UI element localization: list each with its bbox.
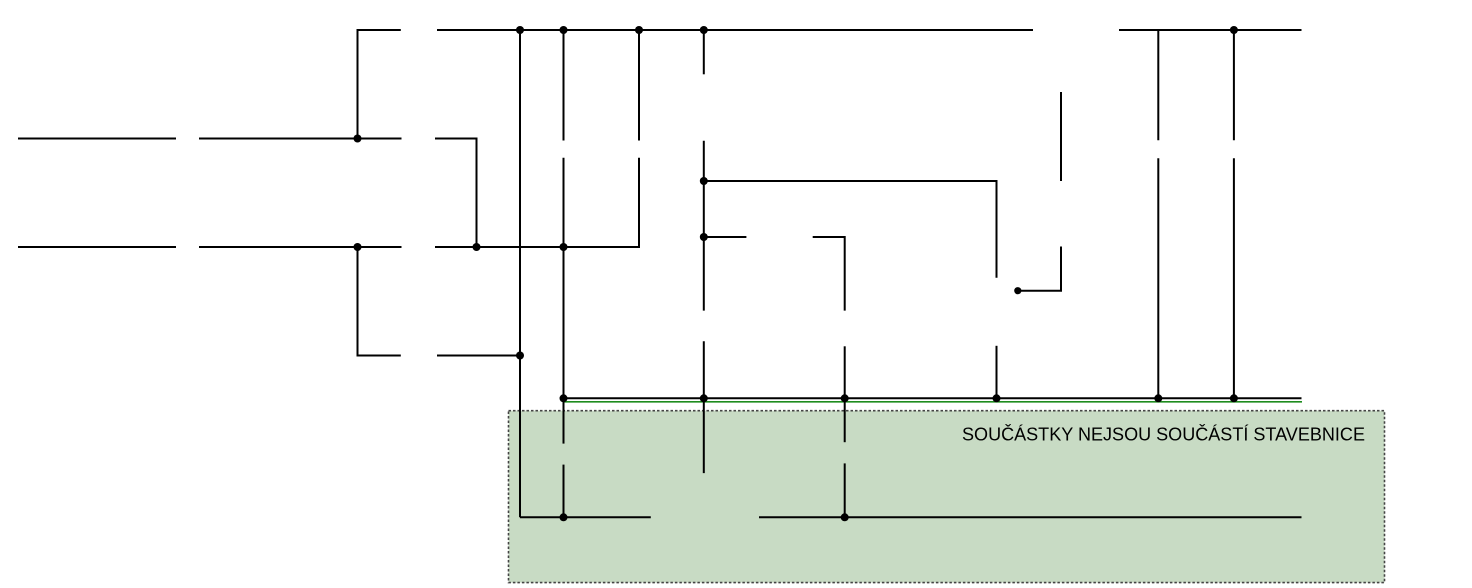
- junction rail R2: [700, 26, 708, 34]
- wire secondary bottom: TR1 to node B: [199, 246, 402, 248]
- wire T1 emitter line down to R1 top: [1060, 92, 1062, 181]
- wire C4 branch: rail to C4 to GND rail: [1233, 30, 1235, 398]
- junction D2 anode at negative row: [473, 243, 481, 251]
- wire node A vertical up to D1 anode: [358, 30, 401, 139]
- wire D4 cathode up to +V rail and down to regulator IN: [437, 30, 520, 517]
- junction D4 cathode: [516, 352, 524, 360]
- junction node B: [354, 243, 362, 251]
- wire negative row from D3 to C2: [435, 158, 639, 247]
- wire secondary top: TR1 to F2 to node A: [199, 138, 402, 140]
- wire D2 anode down to negative row: [435, 139, 477, 248]
- junction GND rail C4: [1230, 394, 1238, 402]
- wire C3 branch: rail to C3 to GND rail: [1157, 30, 1159, 398]
- wire C6 branch: GND rail to C6, C6 to +Up rail: [844, 398, 846, 517]
- junction +Up rail C6: [841, 513, 849, 521]
- junction rail D4: [516, 26, 524, 34]
- wire R2 branch: rail to R2, R2 to node X, node X to D5, D5 to GND rail, GND rail to IO1: [703, 30, 705, 473]
- junction rail C4: [1230, 26, 1238, 34]
- wire +V rail from D1 cathode to T1: [437, 29, 1033, 31]
- wire +Up rail left segment to IO1 IN: [520, 516, 651, 518]
- wire C5 branch: GND rail to C5, C5 to +Up rail: [563, 398, 565, 517]
- kit boundary green box: [509, 411, 1385, 583]
- junction +Up rail C5: [560, 513, 568, 521]
- junction rail C2: [635, 26, 643, 34]
- junction node X at R2: [700, 177, 708, 185]
- wire +Up rail from IO1 OUT to +Up terminal: [759, 516, 1302, 518]
- wire primary top: terminal to F1 to TR1: [18, 138, 176, 140]
- svg-text:SOUČÁSTKY NEJSOU SOUČÁSTÍ STAV: SOUČÁSTKY NEJSOU SOUČÁSTÍ STAVEBNICE: [962, 424, 1365, 445]
- wire node X horizontal to P1 top: [704, 181, 997, 278]
- wire D6 cathode to GND rail: [844, 346, 846, 398]
- wire node X to R3: [704, 236, 747, 238]
- wire C1 branch: rail to C1 to negative row to GND rail: [563, 30, 565, 398]
- wire output rail from T1 emitter to +VDC terminal: [1119, 29, 1302, 31]
- wire node B jog down to D4 anode: [358, 247, 401, 356]
- junction node X at R3: [700, 233, 708, 241]
- junction P1 wiper: [1014, 287, 1021, 294]
- junction node A: [354, 135, 362, 143]
- wire R3 to D6: [813, 237, 845, 311]
- wire P1 wiper to R1 bottom: [1018, 247, 1061, 291]
- wire primary bottom: terminal to TR1: [18, 246, 176, 248]
- junction GND rail P1: [993, 394, 1001, 402]
- junction GND rail C3: [1154, 394, 1162, 402]
- junction rail C1: [560, 26, 568, 34]
- wire P1 bottom to GND rail: [996, 346, 998, 399]
- green line under GND rail: [564, 401, 1303, 403]
- junction GND rail D6: [841, 394, 849, 402]
- wire GND rail: [564, 397, 1302, 399]
- junction C1 at negative row: [560, 243, 568, 251]
- wire C2 branch: rail to C2: [638, 30, 640, 141]
- junction GND rail C1: [560, 394, 568, 402]
- junction GND rail D5: [700, 394, 708, 402]
